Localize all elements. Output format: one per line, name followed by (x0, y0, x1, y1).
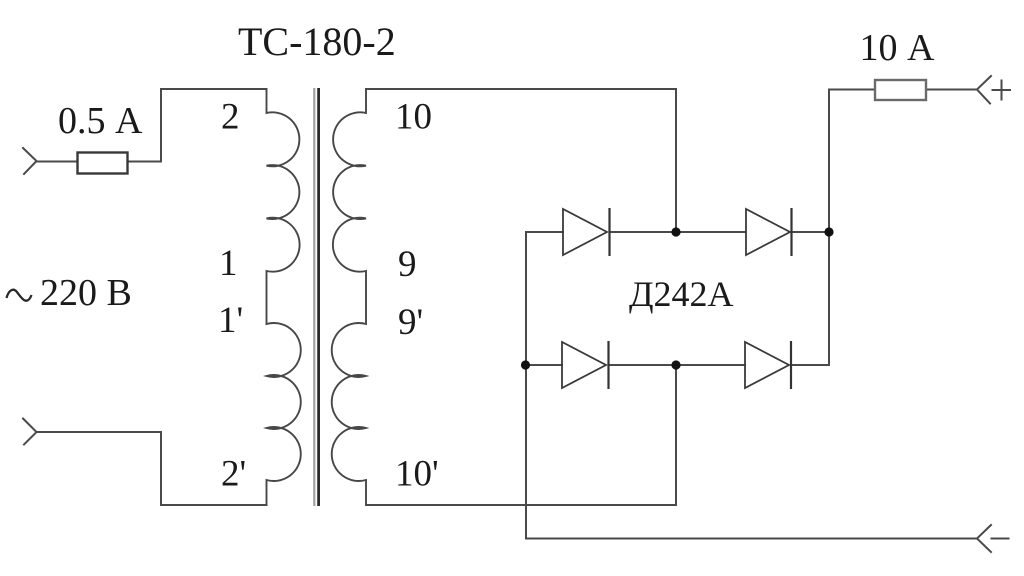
svg-text:0.5 А: 0.5 А (58, 100, 143, 142)
svg-text:10: 10 (395, 97, 432, 138)
svg-text:10 А: 10 А (860, 27, 936, 69)
svg-text:2: 2 (221, 97, 240, 138)
svg-text:Д242А: Д242А (629, 274, 734, 314)
svg-text:10': 10' (395, 454, 439, 495)
svg-text:1': 1' (218, 300, 243, 341)
svg-text:2': 2' (221, 454, 246, 495)
svg-text:9': 9' (398, 302, 423, 343)
svg-text:1: 1 (219, 243, 238, 284)
svg-text:9: 9 (398, 244, 417, 285)
svg-text:ТС-180-2: ТС-180-2 (238, 19, 396, 64)
svg-text:220 В: 220 В (40, 272, 132, 314)
